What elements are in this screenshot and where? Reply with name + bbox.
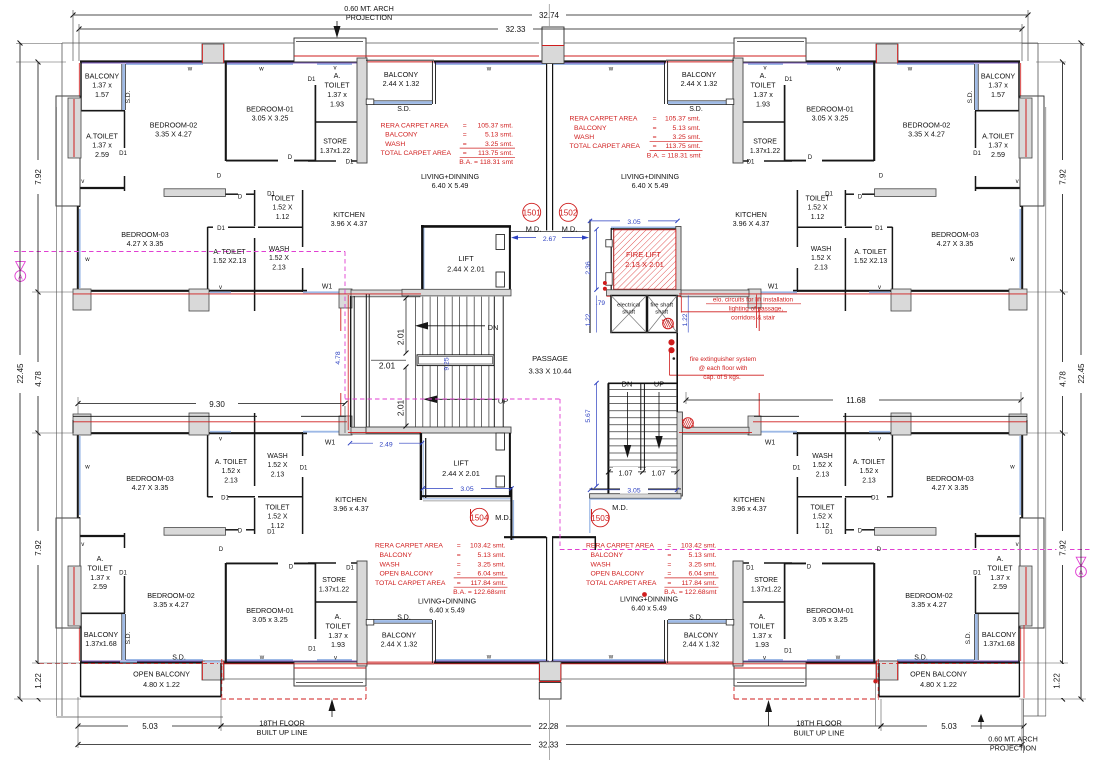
svg-text:BALCONY: BALCONY: [380, 552, 413, 559]
electrical shaft: [611, 296, 647, 333]
svg-text:18TH FLOOR: 18TH FLOOR: [796, 719, 842, 728]
bottom dimension 32.33: [78, 744, 531, 746]
svg-text:w: w: [486, 654, 492, 661]
svg-text:D: D: [219, 546, 224, 553]
svg-text:4.27 X 3.35: 4.27 X 3.35: [932, 483, 969, 492]
central divider wall bottom: [546, 537, 548, 661]
svg-text:DN: DN: [488, 323, 499, 332]
svg-text:103.42 smt.: 103.42 smt.: [470, 543, 506, 550]
svg-text:TOTAL CARPET AREA: TOTAL CARPET AREA: [570, 143, 641, 150]
svg-text:TOILET: TOILET: [87, 563, 113, 572]
svg-text:3.05 X 3.25: 3.05 X 3.25: [812, 114, 849, 123]
svg-text:1.37x1.22: 1.37x1.22: [750, 148, 780, 155]
svg-text:3.05 x 3.25: 3.05 x 3.25: [252, 615, 288, 624]
svg-text:=: =: [667, 552, 671, 559]
svg-text:=: =: [653, 125, 657, 132]
svg-text:1.93: 1.93: [756, 100, 770, 109]
svg-text:2.01: 2.01: [379, 360, 396, 370]
svg-text:113.75 smt.: 113.75 smt.: [478, 150, 513, 157]
svg-text:TOILET: TOILET: [325, 621, 351, 630]
svg-text:1.12: 1.12: [811, 214, 825, 221]
svg-text:M.D.: M.D.: [495, 513, 511, 522]
svg-text:D1: D1: [973, 570, 981, 577]
red line along bottom exterior wall: [221, 663, 539, 665]
svg-text:6.40 x 5.49: 6.40 x 5.49: [429, 606, 465, 615]
svg-text:D1: D1: [871, 495, 879, 502]
svg-text:BALCONY: BALCONY: [982, 630, 1017, 639]
svg-text:TOILET: TOILET: [749, 621, 775, 630]
svg-text:3.25 smt.: 3.25 smt.: [478, 561, 506, 568]
svg-text:1.52 x: 1.52 x: [860, 468, 879, 475]
svg-text:S.D.: S.D.: [689, 106, 703, 113]
svg-text:22.45: 22.45: [1077, 363, 1086, 384]
svg-text:D: D: [808, 154, 813, 161]
svg-text:UP: UP: [498, 397, 508, 406]
wall below bottom lift to apartment: [510, 487, 512, 540]
svg-text:3.35 X 4.27: 3.35 X 4.27: [908, 130, 945, 139]
red fire lines along passage walls: [73, 293, 421, 295]
svg-text:shaft: shaft: [655, 310, 668, 316]
left stair mid landing: [417, 355, 494, 366]
svg-text:STORE: STORE: [323, 139, 347, 146]
svg-text:113.75 smt.: 113.75 smt.: [665, 143, 700, 150]
svg-text:4.80 X 1.22: 4.80 X 1.22: [143, 680, 180, 689]
svg-text:S.D.: S.D.: [397, 615, 411, 622]
svg-text:=: =: [653, 143, 657, 150]
svg-text:elo. circuits for lift install: elo. circuits for lift installation: [713, 297, 794, 304]
svg-text:WASH: WASH: [380, 561, 400, 568]
red dot bottom right: [642, 592, 647, 597]
right dimension 22.45: [1022, 43, 1085, 45]
svg-text:6.40 X 5.49: 6.40 X 5.49: [432, 181, 469, 190]
svg-text:BEDROOM-02: BEDROOM-02: [147, 591, 195, 600]
svg-text:BALCONY: BALCONY: [84, 630, 119, 639]
lift door notches top lift: [496, 235, 505, 250]
svg-text:BEDROOM-03: BEDROOM-03: [126, 474, 174, 483]
svg-text:3.05: 3.05: [627, 488, 640, 495]
svg-text:w: w: [608, 654, 614, 661]
svg-text:1.52 X: 1.52 X: [268, 514, 288, 521]
svg-text:=: =: [653, 116, 657, 123]
right dimension chain 7.92 4.78 7.92 1.22: [1062, 62, 1064, 699]
svg-text:1.22: 1.22: [585, 313, 592, 326]
svg-text:B.A. = 122.68smt: B.A. = 122.68smt: [453, 589, 505, 596]
svg-text:11.68: 11.68: [846, 396, 866, 405]
blue dim 3.05 bottom lift: [423, 487, 512, 489]
svg-text:A.: A.: [997, 554, 1004, 563]
svg-text:9.25: 9.25: [443, 357, 450, 370]
svg-text:2.01: 2.01: [396, 329, 406, 346]
svg-text:BUILT UP LINE: BUILT UP LINE: [257, 728, 308, 737]
svg-text:LIFT: LIFT: [453, 459, 469, 468]
red fire line at stairwell: [347, 295, 349, 430]
svg-text:RERA CARPET AREA: RERA CARPET AREA: [586, 543, 654, 550]
svg-text:6.40 x 5.49: 6.40 x 5.49: [631, 604, 667, 613]
svg-text:1.37 x: 1.37 x: [328, 631, 348, 640]
svg-text:1.57: 1.57: [991, 90, 1005, 99]
svg-text:=: =: [457, 543, 461, 550]
svg-text:D1: D1: [875, 225, 883, 232]
svg-text:0.60 MT. ARCH: 0.60 MT. ARCH: [988, 735, 1038, 744]
red leader lines: [680, 296, 682, 312]
svg-text:BALCONY: BALCONY: [85, 72, 120, 81]
svg-text:3.25 smt.: 3.25 smt.: [673, 134, 701, 141]
svg-text:=: =: [457, 580, 461, 587]
svg-text:1.37 x: 1.37 x: [90, 573, 110, 582]
apartment walls bottom-right unit 1503 (mirrored): [551, 393, 1044, 686]
blue dim 3.05 fire lift top: [590, 220, 678, 222]
svg-text:BEDROOM-01: BEDROOM-01: [246, 606, 294, 615]
svg-text:WASH: WASH: [811, 246, 831, 253]
svg-text:4.27 X 3.35: 4.27 X 3.35: [132, 483, 169, 492]
svg-text:DN: DN: [622, 380, 633, 389]
svg-text:D: D: [217, 173, 222, 180]
svg-text:6.04 smt.: 6.04 smt.: [478, 571, 506, 578]
svg-text:OPEN BALCONY: OPEN BALCONY: [591, 571, 645, 578]
svg-text:1.37 x: 1.37 x: [752, 631, 772, 640]
svg-text:@ each floor with: @ each floor with: [699, 365, 748, 372]
svg-text:2.59: 2.59: [95, 150, 109, 159]
svg-text:2.13 X 2.01: 2.13 X 2.01: [625, 260, 664, 269]
svg-text:D1: D1: [217, 225, 225, 232]
svg-text:4.27 X 3.35: 4.27 X 3.35: [127, 239, 164, 248]
svg-text:7.92: 7.92: [1059, 540, 1068, 556]
svg-text:W1: W1: [768, 284, 779, 291]
svg-text:WASH: WASH: [812, 453, 832, 460]
svg-text:2.13: 2.13: [862, 477, 876, 484]
svg-text:1.93: 1.93: [331, 640, 345, 649]
svg-text:1.37x1.68: 1.37x1.68: [85, 639, 117, 648]
svg-text:BALCONY: BALCONY: [684, 631, 719, 640]
svg-text:22.28: 22.28: [538, 722, 559, 731]
svg-text:PROJECTION: PROJECTION: [990, 744, 1036, 753]
red dashed built-up line bottom: [221, 698, 366, 700]
svg-text:1.07: 1.07: [652, 468, 666, 477]
svg-text:D1: D1: [346, 565, 354, 572]
projection outline 0.60m offset: [62, 42, 294, 44]
svg-text:A.: A.: [97, 554, 104, 563]
svg-text:KITCHEN: KITCHEN: [735, 210, 767, 219]
svg-text:D1: D1: [825, 190, 833, 197]
svg-text:BEDROOM-02: BEDROOM-02: [903, 121, 951, 130]
svg-text:w: w: [1009, 464, 1015, 471]
svg-text:=: =: [653, 134, 657, 141]
svg-text:UP: UP: [654, 380, 664, 389]
svg-text:3.25 smt.: 3.25 smt.: [689, 561, 717, 568]
wall bottom-right unit entry at passage: [552, 536, 596, 538]
svg-text:WASH: WASH: [269, 246, 289, 253]
svg-text:6.04 smt.: 6.04 smt.: [689, 571, 717, 578]
unit number 1504: [470, 508, 488, 526]
svg-text:1.37x1.22: 1.37x1.22: [320, 148, 350, 155]
svg-text:WASH: WASH: [267, 453, 287, 460]
svg-text:BEDROOM-03: BEDROOM-03: [931, 230, 979, 239]
svg-text:W1: W1: [765, 440, 776, 447]
left stair treads: [414, 297, 416, 427]
svg-text:117.84 smt.: 117.84 smt.: [681, 580, 716, 587]
right stair divider: [640, 383, 642, 470]
svg-text:OPEN BALCONY: OPEN BALCONY: [133, 670, 190, 679]
svg-text:FIRE LIFT: FIRE LIFT: [626, 250, 661, 259]
svg-text:1.37 x: 1.37 x: [92, 141, 112, 150]
svg-text:2.44 X 1.32: 2.44 X 1.32: [383, 79, 420, 88]
apartment walls top-left unit 1501: [56, 38, 549, 331]
svg-text:1.93: 1.93: [755, 640, 769, 649]
svg-text:2.44 X 1.32: 2.44 X 1.32: [381, 640, 418, 649]
svg-text:TOTAL CARPET AREA: TOTAL CARPET AREA: [586, 580, 657, 587]
svg-text:1.52 X2.13: 1.52 X2.13: [213, 258, 247, 265]
svg-text:fire extinguisher system: fire extinguisher system: [690, 356, 756, 363]
svg-text:BUILT UP LINE: BUILT UP LINE: [794, 728, 845, 737]
right stair treads: [609, 389, 678, 391]
bottom apartment parapet band lines: [73, 415, 257, 417]
svg-text:1.37 x: 1.37 x: [753, 90, 773, 99]
stairwell kitchen-side wall: [350, 296, 352, 427]
svg-text:D: D: [807, 564, 812, 571]
open balcony bottom-left: [80, 663, 82, 697]
svg-text:6.40 X 5.49: 6.40 X 5.49: [632, 181, 669, 190]
svg-text:D: D: [858, 194, 863, 201]
svg-text:2.13: 2.13: [271, 471, 285, 478]
blue dim 2.36: [596, 229, 598, 289]
svg-text:2.01: 2.01: [396, 400, 406, 417]
svg-text:OPEN BALCONY: OPEN BALCONY: [380, 571, 434, 578]
svg-text:4.78: 4.78: [335, 351, 342, 364]
left stair direction arrows: [415, 322, 428, 330]
svg-text:1.52 X: 1.52 X: [273, 205, 293, 212]
gray band below fire lift: [607, 290, 682, 296]
svg-text:1.52 X: 1.52 X: [268, 462, 288, 469]
svg-text:LIVING+DINNING: LIVING+DINNING: [418, 597, 477, 606]
svg-text:1.37 x: 1.37 x: [327, 90, 347, 99]
svg-text:2.59: 2.59: [993, 582, 1007, 591]
svg-text:1502: 1502: [559, 209, 578, 218]
svg-text:M.D.: M.D.: [562, 224, 578, 233]
svg-text:S.D.: S.D.: [967, 90, 974, 103]
svg-text:3.96 x 4.37: 3.96 x 4.37: [731, 504, 767, 513]
svg-text:KITCHEN: KITCHEN: [333, 210, 365, 219]
svg-text:7.92: 7.92: [34, 540, 43, 556]
section marker A left: [16, 262, 26, 271]
svg-text:105.37 smt.: 105.37 smt.: [665, 116, 701, 123]
svg-text:0.60 MT. ARCH: 0.60 MT. ARCH: [344, 4, 394, 13]
svg-text:1.52 X2.13: 1.52 X2.13: [854, 258, 888, 265]
svg-text:TOTAL CARPET AREA: TOTAL CARPET AREA: [381, 150, 452, 157]
svg-text:A.: A.: [760, 71, 767, 80]
svg-text:D: D: [238, 528, 243, 535]
svg-text:4.78: 4.78: [34, 371, 43, 387]
svg-text:=: =: [667, 561, 671, 568]
svg-text:1.37 x: 1.37 x: [988, 141, 1008, 150]
dimension 9.30: [78, 403, 196, 405]
wall line at M.D. doors: [511, 231, 589, 233]
right stair down arrows: [627, 392, 629, 446]
svg-text:4.27 X 3.35: 4.27 X 3.35: [937, 239, 974, 248]
apartment walls bottom-left unit 1504 (mirrored): [56, 393, 549, 686]
svg-text:1.22: 1.22: [682, 313, 689, 326]
svg-text:22.45: 22.45: [16, 363, 25, 384]
svg-text:A. TOILET: A. TOILET: [213, 249, 246, 256]
svg-text:w: w: [835, 66, 841, 73]
svg-text:2.44 X 1.32: 2.44 X 1.32: [683, 640, 720, 649]
svg-text:D1: D1: [784, 648, 792, 655]
svg-text:B.A. = 118.31 smt: B.A. = 118.31 smt: [647, 152, 701, 159]
svg-text:1.37x1.22: 1.37x1.22: [319, 586, 349, 593]
svg-text:TOILET: TOILET: [750, 81, 776, 90]
svg-text:3.35 X 4.27: 3.35 X 4.27: [155, 130, 192, 139]
svg-text:1.37x1.22: 1.37x1.22: [751, 586, 781, 593]
svg-text:S.D.: S.D.: [125, 631, 132, 644]
svg-text:4.78: 4.78: [1059, 371, 1068, 387]
left extension lines: [16, 61, 66, 63]
svg-text:=: =: [667, 571, 671, 578]
svg-text:D1: D1: [747, 159, 755, 166]
svg-text:w: w: [835, 654, 841, 661]
svg-text:w: w: [84, 256, 90, 263]
svg-text:B.A. = 118.31 smt: B.A. = 118.31 smt: [459, 159, 513, 166]
svg-text:w: w: [259, 654, 265, 661]
svg-text:BALCONY: BALCONY: [981, 72, 1016, 81]
svg-text:RERA CARPET AREA: RERA CARPET AREA: [381, 122, 449, 129]
svg-text:1.37 x: 1.37 x: [990, 573, 1010, 582]
svg-text:1.93: 1.93: [330, 100, 344, 109]
svg-text:D1: D1: [746, 565, 754, 572]
svg-text:=: =: [463, 122, 467, 129]
svg-text:=: =: [457, 552, 461, 559]
svg-text:=: =: [463, 141, 467, 148]
stairwell left wall: [365, 294, 367, 433]
svg-text:KITCHEN: KITCHEN: [733, 495, 765, 504]
svg-text:D1: D1: [973, 150, 981, 157]
svg-text:5.13 smt.: 5.13 smt.: [485, 132, 513, 139]
svg-text:STORE: STORE: [322, 577, 346, 584]
svg-text:3.96 x 4.37: 3.96 x 4.37: [333, 504, 369, 513]
svg-text:1.52 X: 1.52 X: [813, 514, 833, 521]
svg-text:M.D.: M.D.: [612, 503, 628, 512]
svg-text:1.37x1.68: 1.37x1.68: [983, 639, 1015, 648]
svg-text:BALCONY: BALCONY: [385, 132, 418, 139]
svg-text:D: D: [877, 546, 882, 553]
svg-text:D1: D1: [825, 529, 833, 536]
svg-text:D1: D1: [119, 150, 127, 157]
svg-text:5.03: 5.03: [941, 722, 957, 731]
right stair walls: [607, 383, 609, 497]
top dimension 32.74: [73, 14, 532, 16]
svg-text:7.92: 7.92: [1059, 169, 1068, 185]
svg-text:3.96 X 4.37: 3.96 X 4.37: [331, 219, 368, 228]
svg-text:cap. of 5 kgs.: cap. of 5 kgs.: [703, 374, 741, 381]
wall bottom-left unit entry at passage: [504, 536, 546, 538]
svg-text:3.33 X 10.44: 3.33 X 10.44: [528, 367, 571, 376]
central top pier: [542, 27, 564, 46]
svg-text:1.57: 1.57: [95, 90, 109, 99]
blue dim 2.49: [350, 442, 422, 444]
unit number 1502: [559, 203, 577, 221]
svg-text:3.05: 3.05: [627, 219, 640, 226]
svg-text:=: =: [667, 580, 671, 587]
svg-text:BEDROOM-01: BEDROOM-01: [806, 105, 854, 114]
svg-text:5.13 smt.: 5.13 smt.: [478, 552, 506, 559]
svg-text:lighting of passage,: lighting of passage,: [729, 306, 784, 313]
svg-text:2.13: 2.13: [224, 477, 238, 484]
svg-text:=: =: [463, 132, 467, 139]
svg-text:D: D: [238, 194, 243, 201]
svg-text:1.07: 1.07: [619, 468, 633, 477]
svg-text:PASSAGE: PASSAGE: [532, 354, 568, 363]
svg-text:BEDROOM-02: BEDROOM-02: [905, 591, 953, 600]
svg-text:32.33: 32.33: [538, 741, 559, 750]
svg-text:1.12: 1.12: [276, 214, 290, 221]
svg-text:3.05 X 3.25: 3.05 X 3.25: [252, 114, 289, 123]
svg-text:117.84 smt.: 117.84 smt.: [470, 580, 505, 587]
svg-text:S.D.: S.D.: [397, 106, 411, 113]
svg-text:OPEN BALCONY: OPEN BALCONY: [910, 670, 967, 679]
svg-text:1.37 x: 1.37 x: [92, 81, 112, 90]
apartment walls top-right unit 1502 (mirrored): [551, 38, 1044, 331]
svg-text:A.: A.: [759, 612, 766, 621]
svg-text:7.92: 7.92: [34, 169, 43, 185]
gray band below top lift: [402, 289, 511, 296]
svg-text:D1: D1: [785, 76, 793, 83]
magenta section line A-A: [14, 251, 345, 253]
svg-text:w: w: [486, 66, 492, 73]
svg-text:D1: D1: [221, 495, 229, 502]
svg-text:KITCHEN: KITCHEN: [335, 495, 367, 504]
svg-text:TOTAL CARPET AREA: TOTAL CARPET AREA: [375, 580, 446, 587]
red dashed segment into left dimension: [39, 662, 80, 664]
svg-text:2.44 X 1.32: 2.44 X 1.32: [681, 79, 718, 88]
svg-text:D: D: [858, 528, 863, 535]
svg-text:105.37 smt.: 105.37 smt.: [477, 122, 513, 129]
svg-text:BEDROOM-01: BEDROOM-01: [246, 105, 294, 114]
top dimension 32.33: [79, 28, 498, 30]
svg-text:PROJECTION: PROJECTION: [346, 13, 392, 22]
svg-text:w: w: [84, 464, 90, 471]
dimension 11.68: [686, 399, 833, 401]
stair bottom band: [366, 427, 511, 433]
svg-text:D1: D1: [267, 190, 275, 197]
svg-text:D1: D1: [308, 76, 316, 83]
svg-text:w: w: [608, 66, 614, 73]
svg-text:103.42 smt.: 103.42 smt.: [681, 543, 717, 550]
lift (top) walls: [421, 225, 511, 228]
svg-text:BEDROOM-01: BEDROOM-01: [806, 606, 854, 615]
svg-text:A.TOILET: A.TOILET: [982, 132, 1014, 141]
svg-text:D1: D1: [300, 465, 308, 472]
svg-text:w: w: [258, 66, 264, 73]
left dimension 22.45: [16, 43, 62, 45]
svg-text:1504: 1504: [470, 514, 489, 523]
svg-text:3.25 smt.: 3.25 smt.: [485, 141, 513, 148]
svg-text:RERA CARPET AREA: RERA CARPET AREA: [570, 116, 638, 123]
fire damper symbol in fire shaft: [663, 318, 674, 329]
blue dim 2.67 at M.D. doors: [513, 237, 585, 239]
svg-text:3.35 x 4.27: 3.35 x 4.27: [911, 600, 947, 609]
svg-text:STORE: STORE: [754, 577, 778, 584]
svg-text:shaft: shaft: [622, 310, 635, 316]
svg-text:1.22: 1.22: [1053, 673, 1062, 689]
svg-text:=: =: [457, 571, 461, 578]
svg-text:S.D.: S.D.: [914, 655, 928, 662]
svg-text:5.13 smt.: 5.13 smt.: [689, 552, 717, 559]
lift (bottom) walls: [420, 433, 422, 500]
svg-text:9.30: 9.30: [209, 400, 225, 409]
red line above top wall toward center: [366, 55, 539, 57]
svg-text:1501: 1501: [523, 209, 542, 218]
section marker A right: [1076, 557, 1086, 566]
svg-text:=: =: [463, 150, 467, 157]
svg-text:3.05 x 3.25: 3.05 x 3.25: [812, 615, 848, 624]
